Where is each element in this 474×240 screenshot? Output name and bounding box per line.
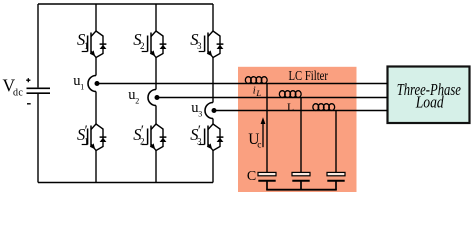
left rail upper <box>37 4 39 87</box>
wire u1 <box>98 83 388 85</box>
svg-text:3: 3 <box>197 137 202 147</box>
transistor S3prime <box>199 124 224 151</box>
dc-link top plate <box>27 87 51 89</box>
svg-text:1: 1 <box>84 137 89 147</box>
cap branch 3 <box>335 111 337 173</box>
wire leg1 mid-upper <box>95 58 97 76</box>
Uc arrow head <box>261 117 266 124</box>
minus sign <box>27 103 31 105</box>
transistor S3 <box>199 31 224 58</box>
svg-text:i: i <box>253 86 256 97</box>
inductor L3 <box>313 104 335 111</box>
node u2 <box>148 90 160 106</box>
svg-text:2: 2 <box>140 137 145 147</box>
node u3 <box>205 103 217 119</box>
svg-text:2: 2 <box>140 41 145 51</box>
wire leg1 top <box>95 4 97 31</box>
cap branch 1 <box>266 84 268 173</box>
wire leg3 bottom <box>212 151 214 183</box>
inductor L1 <box>245 77 267 84</box>
wire leg1 bottom <box>95 151 97 183</box>
plus sign <box>26 78 30 82</box>
wire u2 <box>158 97 388 99</box>
svg-text:Load: Load <box>415 93 444 112</box>
wire C3 tail to bus <box>335 181 337 190</box>
transistor S1prime <box>82 124 107 151</box>
svg-text:L: L <box>287 102 294 114</box>
transistor S1 <box>82 31 107 58</box>
LC filter box <box>238 67 357 192</box>
wire leg2 mid-upper <box>155 58 157 90</box>
transistor S2 <box>142 31 167 58</box>
wire u3 <box>215 110 388 112</box>
wire C2 tail to bus <box>300 181 302 190</box>
wire leg2 bottom <box>155 151 157 183</box>
capacitor C3 <box>327 172 345 180</box>
wire leg1 mid-lower <box>95 92 97 125</box>
dc-link bottom plate <box>27 92 51 94</box>
bottom rail <box>38 182 213 184</box>
inductor L2 <box>279 91 301 98</box>
svg-text:dc: dc <box>13 87 23 98</box>
capacitor C2 <box>292 172 310 180</box>
svg-text:LC Filter: LC Filter <box>289 68 329 83</box>
cap branch 2 <box>300 98 302 173</box>
capacitor C1 <box>258 172 276 180</box>
left rail lower <box>37 94 39 183</box>
wire leg3 mid-lower <box>212 119 214 125</box>
svg-text:L: L <box>255 88 261 98</box>
svg-text:1: 1 <box>80 82 84 91</box>
svg-text:3: 3 <box>198 109 202 118</box>
load box <box>388 67 470 124</box>
svg-text:1: 1 <box>84 41 89 51</box>
wire leg2 top <box>155 4 157 31</box>
wire leg3 mid-upper <box>212 58 214 103</box>
svg-text:3: 3 <box>197 41 202 51</box>
wire C1 tail to bus <box>266 181 268 190</box>
Uc arrow line <box>262 120 264 147</box>
wire leg3 top <box>212 4 214 31</box>
cap common bus <box>266 189 337 191</box>
svg-text:c: c <box>257 140 261 150</box>
top rail <box>38 3 213 5</box>
transistor S2prime <box>142 124 167 151</box>
wire leg2 mid-lower <box>155 106 157 125</box>
svg-text:C: C <box>247 169 256 184</box>
node u1 <box>88 76 100 92</box>
svg-text:2: 2 <box>135 96 139 105</box>
